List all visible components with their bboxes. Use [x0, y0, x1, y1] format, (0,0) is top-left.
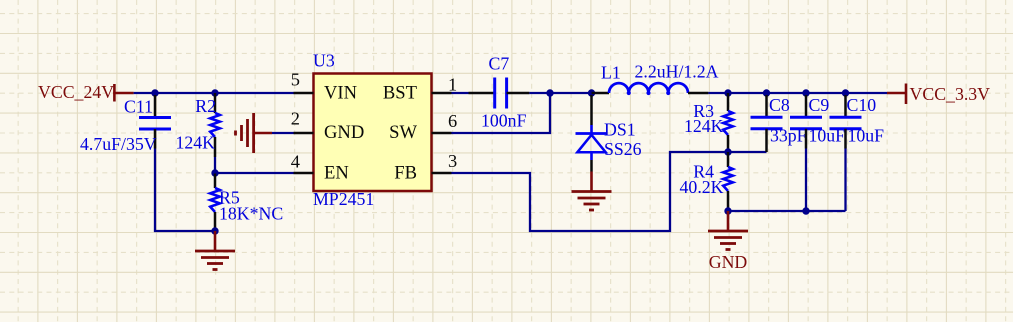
capacitor C9 [790, 95, 829, 211]
capacitor C11 [124, 95, 171, 149]
node R2 top junction [211, 89, 218, 96]
wire FB net [452, 152, 729, 231]
svg-text:BST: BST [383, 83, 418, 104]
svg-text:1: 1 [448, 75, 457, 95]
wire output rail [708, 92, 887, 94]
svg-text:C7: C7 [489, 54, 510, 74]
svg-text:2.2uH/1.2A: 2.2uH/1.2A [635, 62, 719, 82]
svg-text:4.7uF/35V: 4.7uF/35V [80, 134, 157, 154]
resistor R3 [693, 93, 733, 152]
ground GND (below R4) [708, 211, 748, 272]
node R5 bottom junction [211, 227, 218, 234]
node EN junction [211, 169, 218, 176]
wire FB to C8 [728, 151, 767, 153]
svg-text:DS1: DS1 [604, 120, 636, 140]
capacitor C7 [469, 54, 530, 109]
wire BST [452, 92, 469, 94]
node C9 bottom junction [802, 207, 809, 214]
node C9 top junction [802, 89, 809, 96]
svg-text:EN: EN [324, 163, 349, 184]
svg-text:R2: R2 [195, 96, 216, 116]
wire C11 bottom [155, 149, 215, 232]
wire EN [215, 172, 294, 174]
svg-text:SW: SW [389, 122, 417, 143]
svg-text:10uF: 10uF [848, 126, 885, 146]
svg-text:18K*NC: 18K*NC [219, 204, 283, 224]
svg-text:VCC_3.3V: VCC_3.3V [910, 84, 991, 104]
svg-text:C11: C11 [124, 97, 153, 117]
ground (below R5) [195, 231, 235, 270]
pin 1 BST [383, 75, 457, 104]
power port VCC_3.3V [887, 84, 990, 105]
svg-text:6: 6 [448, 111, 457, 131]
svg-text:C9: C9 [809, 95, 830, 115]
wire R2 bottom [214, 157, 216, 173]
svg-text:FB: FB [394, 163, 417, 184]
wire C7 right [529, 92, 592, 94]
svg-text:40.2K: 40.2K [680, 177, 724, 197]
svg-text:VCC_24V: VCC_24V [38, 82, 114, 102]
resistor R5 [210, 174, 240, 232]
ground (below DS1) [572, 172, 612, 211]
wire VIN rail [134, 92, 294, 94]
pin 2 GND [291, 109, 365, 144]
pin 5 VIN [291, 70, 357, 104]
svg-text:4: 4 [291, 152, 300, 172]
svg-text:2: 2 [291, 109, 300, 129]
node diode junction [588, 89, 595, 96]
svg-text:L1: L1 [601, 62, 621, 82]
resistor R4 [693, 152, 733, 211]
svg-text:100nF: 100nF [481, 111, 527, 131]
IC U3 MP2451 body [313, 51, 432, 210]
svg-text:U3: U3 [313, 51, 335, 71]
svg-text:VIN: VIN [324, 83, 357, 104]
svg-text:C8: C8 [769, 95, 790, 115]
svg-text:C10: C10 [847, 95, 877, 115]
svg-text:MP2451: MP2451 [313, 189, 374, 209]
capacitor C8 [751, 95, 790, 152]
svg-text:5: 5 [291, 70, 300, 90]
pin 6 SW [389, 111, 457, 143]
wire SW loop [452, 93, 551, 133]
diode DS1 SS26 [576, 95, 636, 172]
node R3 top junction [724, 89, 731, 96]
power port VCC_24V [38, 82, 134, 102]
svg-text:GND: GND [709, 252, 748, 272]
pin 3 FB [394, 151, 457, 184]
node SW loop junction [546, 89, 553, 96]
node FB junction [724, 148, 731, 155]
node C10 top junction [842, 89, 849, 96]
ground (at pin 2, rotated) [236, 113, 273, 153]
pin 4 EN [291, 152, 349, 184]
svg-text:3: 3 [448, 151, 457, 171]
wire pin2 to ground [272, 132, 294, 134]
svg-text:GND: GND [324, 122, 364, 143]
wire ground rail [728, 210, 846, 212]
node C11 top junction [151, 89, 158, 96]
inductor L1 [592, 62, 709, 95]
resistor R2 [195, 93, 220, 157]
node R4 bottom junction [724, 207, 731, 214]
svg-text:124K: 124K [684, 116, 724, 136]
node C8 top junction [763, 89, 770, 96]
svg-text:SS26: SS26 [604, 139, 642, 159]
svg-text:124K: 124K [175, 133, 215, 153]
capacitor C10 [830, 95, 877, 211]
